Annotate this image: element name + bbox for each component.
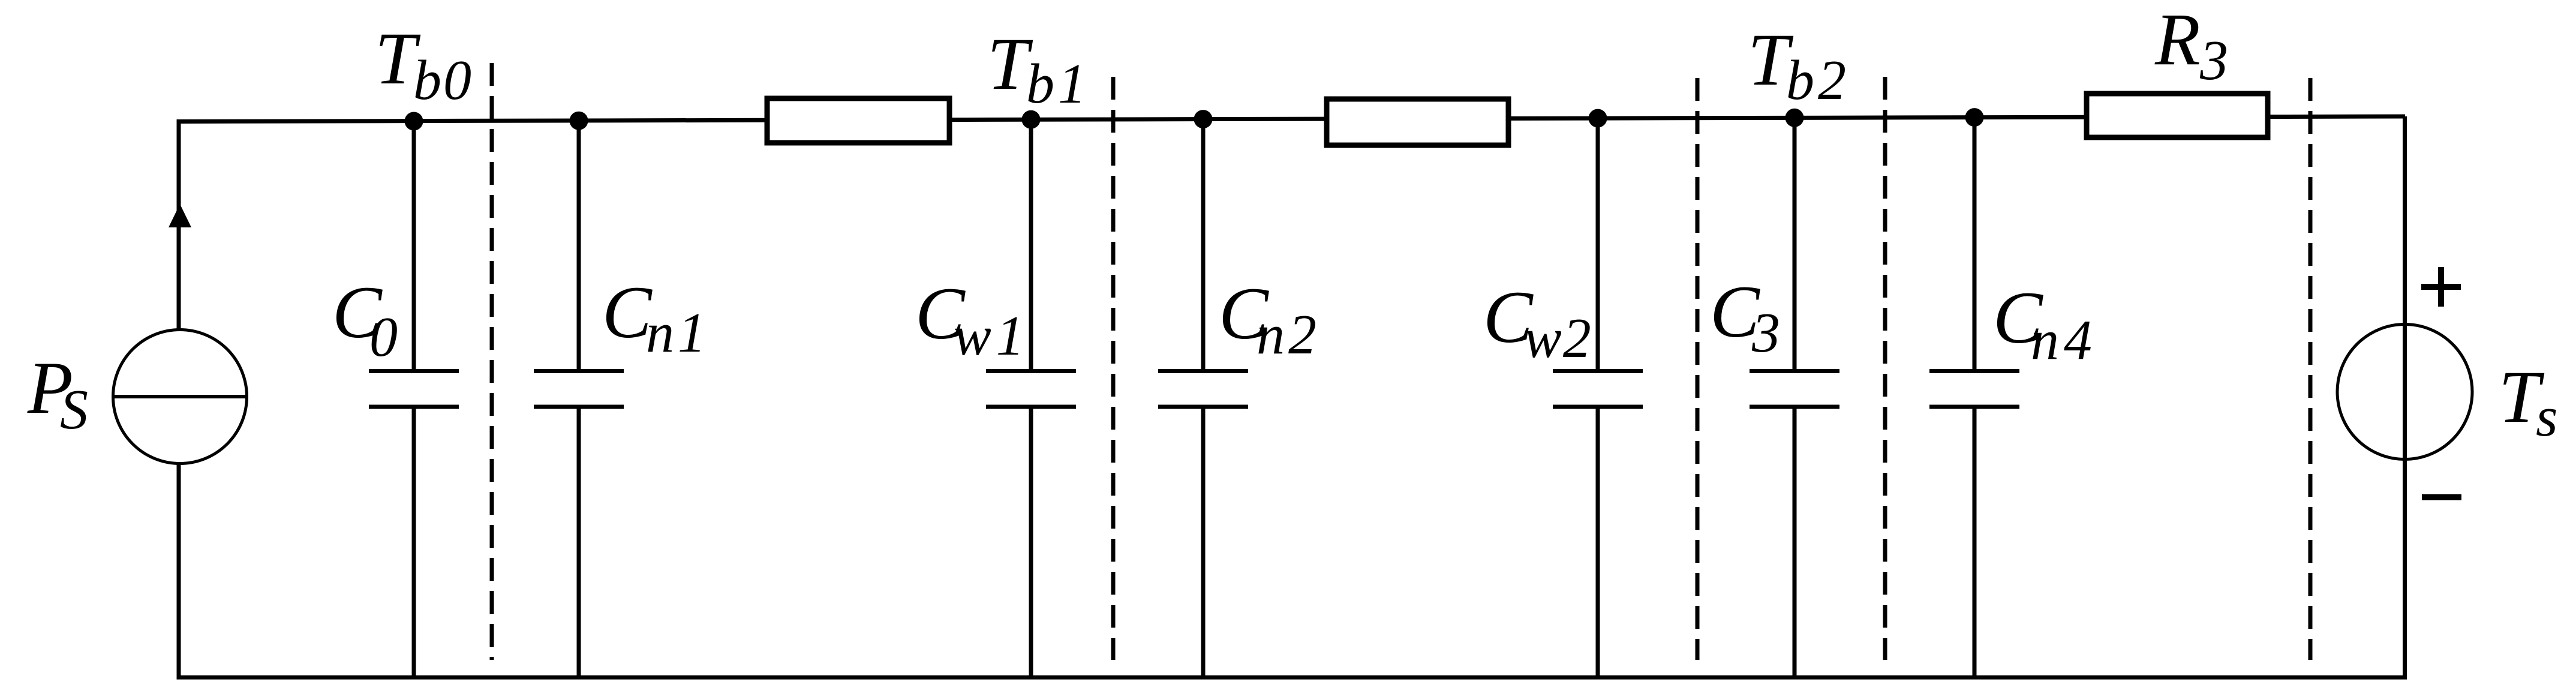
capacitor Cn1 bottom plate: [534, 405, 624, 409]
resistor R1 (unlabeled): [767, 98, 949, 143]
capacitor Cn4 lower wire: [1973, 407, 1977, 677]
capacitor Cw1 top plate: [986, 369, 1076, 373]
node Tb2 dot: [1786, 109, 1804, 127]
current source PS circle: [113, 330, 247, 464]
svg-text:n4: n4: [2031, 309, 2097, 371]
node Cn4 dot: [1965, 108, 1984, 127]
wire right vertical: [2403, 116, 2407, 679]
capacitor Cn2 lower wire: [1201, 407, 1206, 677]
svg-text:C: C: [602, 271, 653, 353]
capacitor C3 lower wire: [1793, 407, 1797, 677]
svg-text:0: 0: [369, 306, 398, 368]
capacitor C0 bottom plate: [369, 405, 459, 409]
capacitor Cn2 upper wire: [1201, 119, 1206, 371]
capacitor Cw2 bottom plate: [1553, 405, 1643, 409]
capacitor C0 lower wire: [412, 407, 416, 677]
wire left vertical (source branch upper): [177, 119, 181, 331]
svg-text:3: 3: [1751, 302, 1780, 364]
resistor R3: [2087, 94, 2268, 137]
dashed boundary line 3: [1696, 78, 1700, 660]
capacitor Cn4 bottom plate: [1929, 405, 2019, 409]
svg-text:b0: b0: [413, 49, 473, 112]
capacitor Cn1 upper wire: [577, 121, 581, 371]
wire top rail: [178, 116, 2405, 122]
svg-text:S: S: [60, 379, 88, 441]
minus sign: [2422, 494, 2461, 500]
node Cw2 dot: [1589, 109, 1607, 128]
svg-text:b1: b1: [1026, 53, 1090, 115]
node Tb1 dot: [1022, 110, 1041, 129]
node Cn2 dot: [1194, 110, 1213, 128]
arrow current direction: [169, 204, 191, 227]
current source PS diameter bar: [113, 395, 247, 398]
node Tb0 dot: [405, 112, 423, 131]
capacitor Cn1 top plate: [534, 369, 624, 373]
capacitor Cw1 bottom plate: [986, 405, 1076, 409]
node Cn1 dot: [570, 112, 588, 130]
capacitor C3 upper wire: [1793, 118, 1797, 371]
capacitor C3 top plate: [1750, 369, 1839, 373]
capacitor Cn2 bottom plate: [1158, 405, 1248, 409]
wire left vertical (source branch lower): [177, 463, 181, 679]
capacitor C0 upper wire: [412, 121, 416, 371]
capacitor Cw2 top plate: [1553, 369, 1643, 373]
dashed boundary line 1: [490, 63, 494, 660]
capacitor Cw2 upper wire: [1596, 118, 1600, 371]
capacitor Cn1 lower wire: [577, 407, 581, 677]
capacitor Cw2 lower wire: [1596, 407, 1600, 677]
capacitor C3 bottom plate: [1750, 405, 1839, 409]
capacitor C0 top plate: [369, 369, 459, 373]
svg-text:n2: n2: [1257, 304, 1320, 366]
svg-text:n1: n1: [646, 302, 710, 364]
voltage source Ts circle: [2337, 325, 2472, 460]
dashed boundary line 5: [2309, 78, 2313, 660]
capacitor Cn4 top plate: [1929, 369, 2019, 373]
svg-text:3: 3: [2199, 29, 2228, 92]
wire bottom rail: [177, 676, 2407, 680]
svg-text:R: R: [2154, 0, 2201, 80]
capacitor Cn4 upper wire: [1973, 117, 1977, 371]
capacitor Cw1 lower wire: [1029, 407, 1033, 677]
plus sign: [2421, 284, 2461, 290]
capacitor Cw1 upper wire: [1029, 119, 1033, 371]
capacitor Cn2 top plate: [1158, 369, 1248, 373]
svg-text:w1: w1: [954, 305, 1029, 367]
svg-text:b2: b2: [1786, 49, 1850, 112]
svg-text:w2: w2: [1524, 307, 1592, 370]
resistor R2 (unlabeled): [1327, 99, 1508, 145]
dashed boundary line 4: [1883, 77, 1887, 660]
svg-text:s: s: [2536, 386, 2558, 448]
dashed boundary line 2: [1111, 77, 1116, 660]
